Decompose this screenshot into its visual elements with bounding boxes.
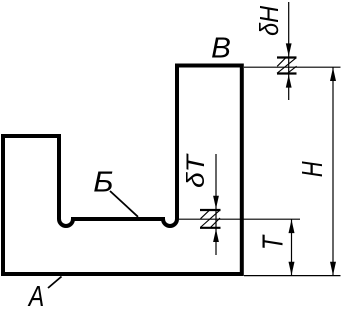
arrow dT up (below band) (213, 229, 219, 242)
dimension line H (332, 67, 334, 275)
extension line bottom (surface A) (244, 275, 341, 277)
dimension line T (291, 219, 293, 275)
tolerance zone band dH: top bar (277, 56, 297, 58)
arrow dT down (above band) (213, 196, 219, 209)
tolerance zone band dH: hatching (277, 58, 297, 74)
svg-text:Б: Б (93, 166, 113, 198)
arrow T bottom (289, 262, 295, 276)
svg-text:A: A (27, 279, 44, 312)
arrow H top (330, 68, 336, 81)
extension line groove (surface Б) (178, 218, 300, 220)
arrow dH up (below band) (286, 75, 292, 88)
svg-text:B: B (211, 32, 231, 65)
svg-text:T: T (256, 234, 289, 250)
svg-text:δH: δH (256, 6, 284, 36)
svg-text:H: H (297, 161, 329, 177)
arrow H bottom (330, 262, 336, 276)
dT witness line vertical (215, 154, 217, 255)
extension line top (surface B) (244, 66, 341, 68)
tolerance zone band dT: top bar (200, 209, 221, 211)
tolerance zone band dT: hatching (200, 210, 220, 227)
arrow T top (289, 220, 295, 234)
tolerance zone band dT: bottom bar (200, 227, 221, 229)
tolerance zone band dH: bottom bar (277, 72, 297, 74)
svg-text:δT: δT (182, 153, 210, 188)
leader line for A (48, 277, 62, 289)
arrow dH down (above band) (286, 43, 292, 56)
part outline (3, 66, 242, 275)
dH witness line vertical (288, 2, 290, 100)
leader line for B (groove) (110, 191, 138, 217)
